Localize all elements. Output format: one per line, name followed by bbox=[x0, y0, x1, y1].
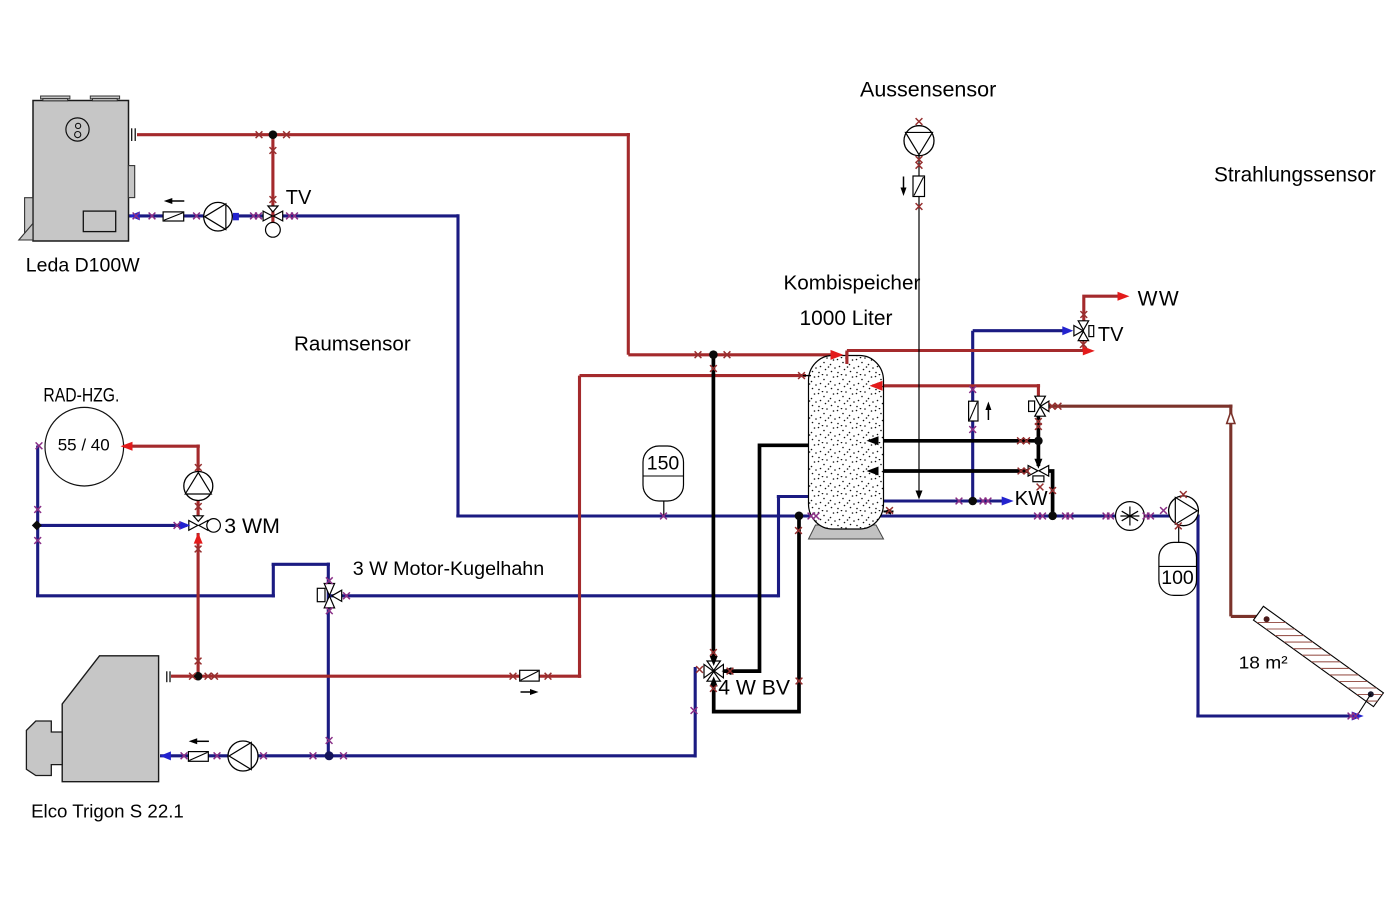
arrow blue KW flow bbox=[1002, 497, 1014, 506]
pump Elco return bbox=[228, 741, 258, 771]
label RAD-HZG. bbox=[43, 386, 119, 407]
wire maroon solar supply horizontal bbox=[1049, 405, 1233, 408]
wire blue riser KW to TV mixing valve bbox=[971, 331, 974, 501]
wire blue Elco return pipe bbox=[160, 754, 695, 757]
wire black V2 right elbow to main line bbox=[1047, 471, 1053, 515]
svg-text:18 m²: 18 m² bbox=[1239, 653, 1288, 673]
connection ticks at Leda supply bbox=[132, 128, 136, 141]
wire red storage top stub over tank bbox=[845, 352, 848, 364]
valve 4 W BV four-way bbox=[704, 661, 723, 681]
boiler Elco Trigon S 22.1 bbox=[26, 656, 158, 782]
storage tank Kombispeicher 1000 Liter body bbox=[809, 356, 884, 530]
flow arrow down beside sensor valve bbox=[901, 177, 907, 197]
pump solar circuit bbox=[1169, 496, 1199, 526]
svg-text:150: 150 bbox=[647, 453, 680, 475]
label Strahlungssensor bbox=[1214, 164, 1376, 187]
label Elco Trigon S 22.1 bbox=[31, 801, 184, 822]
arrow blue square on Leda return bbox=[233, 213, 239, 220]
node junction red supply / black riser bbox=[709, 350, 718, 359]
arrow red to RAD-HZG circle bbox=[121, 442, 133, 451]
valve 3 WM mixing bbox=[189, 516, 221, 532]
arrow black into 4W BV from right bbox=[722, 667, 732, 675]
wire black storage coil upper arrow line bbox=[874, 439, 1040, 443]
node junction Elco supply / 3 WM branch bbox=[194, 672, 203, 681]
base plinth of storage tank bbox=[809, 525, 884, 539]
svg-text:4 W BV: 4 W BV bbox=[718, 677, 791, 700]
arrow red up into 3 WM valve bbox=[194, 533, 203, 544]
boiler Leda D100W bbox=[19, 96, 135, 241]
wire blue main line right riser down bbox=[1196, 516, 1199, 716]
node collector inlet dot bbox=[1264, 616, 1270, 622]
svg-text:Leda D100W: Leda D100W bbox=[26, 254, 140, 276]
valve solar 3-way upper V1 bbox=[1029, 396, 1049, 416]
label 3 W Motor-Kugelhahn bbox=[353, 558, 545, 580]
wire red WW outlet elbow bbox=[1084, 296, 1123, 321]
sensor capillary line down bbox=[918, 156, 920, 494]
wire red branch down to TV valve at Leda bbox=[271, 135, 274, 226]
svg-text:Elco Trigon S 22.1: Elco Trigon S 22.1 bbox=[31, 801, 184, 822]
wire red elbow down into solar valve bbox=[1037, 384, 1040, 399]
arrow red into storage upper right bbox=[870, 381, 883, 391]
label 4 W BV bbox=[718, 677, 791, 700]
stem of vessel 100 bbox=[1178, 526, 1180, 542]
expansion vessel 150 bbox=[643, 446, 684, 501]
connection ticks at Elco supply bbox=[167, 671, 170, 682]
wire blue riser from Elco return to 4W BV valve bbox=[694, 667, 697, 758]
wire blue storage bottom inlet horizontal bbox=[777, 495, 814, 498]
valve TV thermostatic at Leda bbox=[263, 206, 283, 237]
heat meter circle with asterisk bbox=[1116, 502, 1145, 531]
node junction main line / V2 elbow bbox=[1048, 512, 1057, 521]
wire blue bottom line to collector bbox=[1196, 714, 1357, 717]
wire red 3 WM riser to RAD-HZG bbox=[197, 445, 200, 521]
wire blue feed into TV mixing valve bbox=[973, 329, 1067, 332]
stem of vessel 150 bbox=[663, 501, 665, 516]
wire blue from motor ball valve to storage bbox=[328, 594, 778, 597]
label Aussensensor bbox=[860, 78, 996, 102]
node junction KW line / TV riser bbox=[968, 497, 977, 506]
label TV at Leda bbox=[286, 187, 312, 209]
arrow black small into storage right bbox=[883, 509, 891, 515]
label TV at storage bbox=[1098, 324, 1124, 346]
wire black tick into storage left bbox=[800, 375, 811, 377]
wire blue step-up riser bbox=[272, 564, 275, 597]
wire blue branch to 3 WM valve bbox=[37, 524, 187, 527]
wire blue Leda boiler return pipe bbox=[129, 214, 458, 217]
node junction Leda supply / TV branch bbox=[269, 130, 278, 139]
arrow black storage coil lower bbox=[867, 467, 879, 476]
heating circuit circle RAD-HZG bbox=[45, 407, 124, 486]
label 1000 Liter bbox=[800, 307, 893, 330]
pump RAD-HZG supply bbox=[184, 472, 213, 501]
svg-text:TV: TV bbox=[286, 187, 312, 209]
svg-text:Raumsensor: Raumsensor bbox=[294, 333, 411, 356]
arrow maroon hollow on solar riser bbox=[1227, 412, 1235, 424]
node junction Elco return / ball valve line bbox=[325, 751, 334, 760]
label Raumsensor bbox=[294, 333, 411, 356]
svg-text:100: 100 bbox=[1161, 567, 1194, 589]
flow arrow above Elco check valve bbox=[189, 738, 209, 744]
solar collector 18 m2 bbox=[1253, 606, 1394, 706]
arrow red into storage top left bbox=[831, 350, 844, 360]
label 3 WM bbox=[224, 514, 280, 538]
arrow blue into TV valve at storage bbox=[1062, 326, 1073, 335]
svg-text:1000 Liter: 1000 Liter bbox=[800, 307, 893, 330]
check valve on Leda return bbox=[163, 212, 184, 221]
wire red TV valve bottom stub bbox=[1082, 341, 1084, 351]
wire red branch up to 3 WM valve bbox=[197, 533, 200, 676]
wire red Leda supply horizontal bbox=[137, 133, 630, 136]
wire blue riser from Leda return down to main line bbox=[456, 214, 459, 516]
valve on sensor line bbox=[913, 176, 925, 197]
svg-text:55 / 40: 55 / 40 bbox=[58, 435, 110, 454]
wire thin collector outlet connector bbox=[1358, 694, 1371, 715]
wire black valve V1 to V2 drop bbox=[1037, 413, 1041, 466]
wire red supply into RAD-HZG circle bbox=[124, 445, 200, 448]
wire black storage mid-left connection bbox=[723, 445, 811, 671]
valve TV thermostatic at storage bbox=[1074, 321, 1094, 341]
wire red Leda supply riser down bbox=[627, 133, 630, 355]
wire red Elco supply to storage left bbox=[580, 374, 807, 377]
pump Leda return bbox=[204, 202, 233, 231]
wire black from red supply junction down to 4W BV bbox=[712, 355, 716, 658]
expansion vessel 100 bbox=[1159, 542, 1197, 595]
wire black storage coil lower arrow line bbox=[874, 469, 1029, 473]
arrow black into V2 from top bbox=[1034, 459, 1042, 469]
wire maroon solar supply to collector bbox=[1231, 615, 1264, 618]
arrow red under TV valve bbox=[1083, 346, 1095, 355]
valve 3 W Motor-Kugelhahn bbox=[317, 584, 341, 608]
svg-text:Kombispeicher: Kombispeicher bbox=[784, 272, 921, 295]
arrow blue into Elco boiler bbox=[160, 751, 171, 760]
wire maroon solar supply riser bbox=[1229, 405, 1232, 617]
wire blue step-over horizontal bbox=[272, 563, 330, 566]
x connection marks bbox=[34, 118, 1359, 759]
svg-text:Strahlungssensor: Strahlungssensor bbox=[1214, 164, 1376, 187]
flow arrow above Leda check valve bbox=[164, 198, 185, 204]
arrow black into 4W BV from bottom bbox=[710, 676, 718, 686]
wire red hot water line to TV valve bbox=[847, 349, 1088, 352]
flow arrow up beside regulator bbox=[985, 402, 991, 421]
arrow red WW outlet bbox=[1118, 292, 1130, 301]
node collector outlet dot bbox=[1368, 691, 1374, 697]
arrow sensor line tip bbox=[916, 491, 923, 500]
node junction solar valve line bbox=[1034, 437, 1043, 446]
sensor symbol Aussensensor bbox=[904, 126, 934, 156]
check valve on Elco return bbox=[188, 752, 208, 762]
wire red storage upper right inlet bbox=[873, 384, 1040, 387]
valve motor 2-way lower V2 bbox=[1028, 466, 1049, 482]
wire blue riser to storage bottom inlet bbox=[777, 497, 780, 598]
svg-text:WW: WW bbox=[1138, 288, 1181, 311]
svg-text:Aussensensor: Aussensensor bbox=[860, 78, 996, 102]
svg-text:3 WM: 3 WM bbox=[224, 514, 280, 538]
check valve on Elco supply bbox=[520, 670, 540, 681]
wire red storage top outlet stub bbox=[845, 351, 848, 365]
flow regulator on KW riser bbox=[969, 401, 978, 421]
label KW bbox=[1015, 487, 1049, 510]
label Leda D100W bbox=[26, 254, 140, 276]
wire blue drop through motor ball valve bbox=[327, 563, 330, 756]
arrow blue into Leda boiler bbox=[129, 211, 140, 220]
label Kombispeicher bbox=[784, 272, 921, 295]
svg-text:TV: TV bbox=[1098, 324, 1124, 346]
wire black 4W BV bottom loop to main line bbox=[714, 515, 799, 712]
flow arrow below Elco supply check valve bbox=[521, 689, 539, 695]
node diamond junction RAD return / 3 WM branch bbox=[32, 520, 42, 530]
wire blue KW line from storage bbox=[879, 499, 1007, 502]
wire red Elco supply horizontal bbox=[171, 675, 581, 678]
label WW bbox=[1138, 288, 1181, 311]
wire red Elco supply riser up bbox=[578, 376, 581, 678]
node junction main line / 4W BV loop bbox=[795, 512, 804, 521]
wire black small stub into storage right bbox=[884, 511, 894, 513]
svg-text:3 W Motor-Kugelhahn: 3 W Motor-Kugelhahn bbox=[353, 558, 545, 580]
wire blue RAD-HZG return horizontal bbox=[36, 594, 275, 597]
svg-text:RAD-HZG.: RAD-HZG. bbox=[43, 386, 119, 407]
wire red Leda supply to storage bbox=[628, 353, 837, 356]
wire blue main line horizontal bbox=[456, 514, 1199, 517]
label 55 / 40 bbox=[58, 435, 110, 454]
arrow black into 4W BV from top bbox=[710, 656, 718, 666]
arrow black storage coil upper bbox=[867, 436, 879, 445]
wire blue RAD-HZG return drop bbox=[36, 446, 39, 596]
arrow blue into 3 WM valve bbox=[179, 521, 190, 530]
label 18 m2 bbox=[1239, 653, 1288, 673]
arrow blue into collector return bbox=[1352, 712, 1364, 721]
